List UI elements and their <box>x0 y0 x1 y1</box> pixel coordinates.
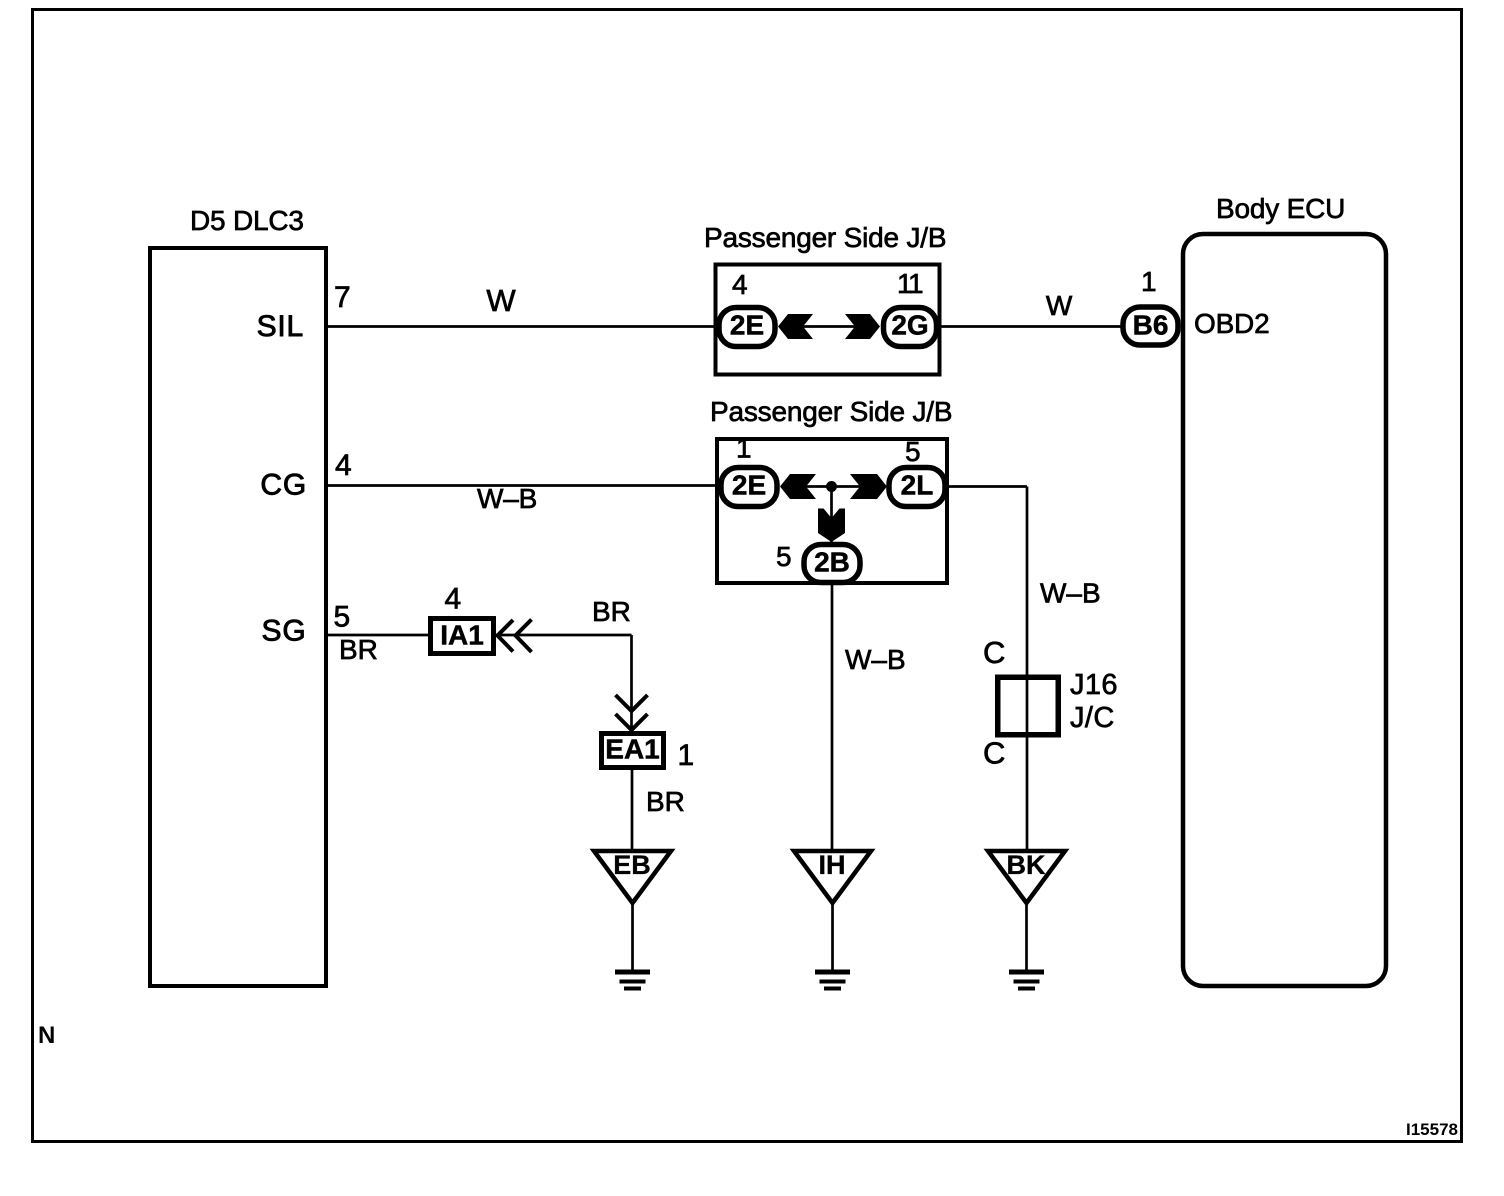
svg-text:11: 11 <box>897 268 923 299</box>
svg-text:2G: 2G <box>891 310 928 341</box>
svg-text:2L: 2L <box>901 470 934 501</box>
svg-text:Body ECU: Body ECU <box>1216 193 1345 224</box>
svg-text:1: 1 <box>678 739 695 772</box>
svg-text:4: 4 <box>445 583 462 616</box>
svg-text:N: N <box>38 1022 55 1049</box>
svg-text:EA1: EA1 <box>605 734 659 765</box>
svg-text:Passenger Side J/B: Passenger Side J/B <box>710 396 952 427</box>
svg-text:SIL: SIL <box>257 310 304 343</box>
svg-text:W–B: W–B <box>1040 578 1101 609</box>
svg-text:BR: BR <box>592 596 631 627</box>
svg-text:BK: BK <box>1007 850 1046 880</box>
svg-text:C: C <box>983 635 1005 670</box>
svg-text:7: 7 <box>334 281 351 314</box>
svg-text:BR: BR <box>339 634 378 665</box>
svg-text:5: 5 <box>776 541 792 572</box>
svg-text:2E: 2E <box>732 470 766 501</box>
svg-text:4: 4 <box>732 269 748 300</box>
svg-text:C: C <box>983 736 1005 771</box>
svg-text:W–B: W–B <box>845 644 906 675</box>
svg-text:IH: IH <box>819 850 846 880</box>
svg-text:W: W <box>1046 290 1073 321</box>
svg-text:CG: CG <box>260 469 307 502</box>
svg-text:SG: SG <box>262 615 307 648</box>
svg-text:IA1: IA1 <box>440 620 484 651</box>
svg-text:Passenger Side J/B: Passenger Side J/B <box>704 222 946 253</box>
svg-text:1: 1 <box>736 433 752 464</box>
svg-text:I15578: I15578 <box>1406 1120 1458 1139</box>
svg-text:J/C: J/C <box>1070 702 1115 734</box>
svg-text:2B: 2B <box>814 547 850 578</box>
svg-text:D5 DLC3: D5 DLC3 <box>190 205 304 236</box>
svg-text:2E: 2E <box>730 310 764 341</box>
svg-text:5: 5 <box>334 601 351 634</box>
svg-text:B6: B6 <box>1133 310 1169 341</box>
svg-text:1: 1 <box>1141 266 1157 297</box>
svg-text:4: 4 <box>335 449 352 482</box>
svg-text:J16: J16 <box>1070 669 1118 701</box>
svg-text:OBD2: OBD2 <box>1194 308 1269 339</box>
svg-text:W: W <box>486 283 516 318</box>
svg-text:EB: EB <box>613 850 651 880</box>
svg-text:BR: BR <box>646 786 685 817</box>
svg-text:5: 5 <box>905 436 921 467</box>
svg-text:W–B: W–B <box>477 483 537 514</box>
